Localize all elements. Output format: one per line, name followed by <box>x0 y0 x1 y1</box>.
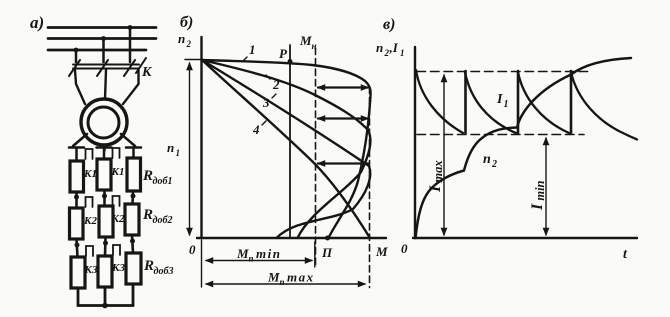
svg-text:К2: К2 <box>111 213 125 225</box>
svg-text:I max: I max <box>427 160 445 193</box>
svg-text:1: 1 <box>400 48 405 58</box>
svg-text:доб1: доб1 <box>153 176 173 187</box>
svg-text:доб2: доб2 <box>153 215 173 226</box>
svg-text:2: 2 <box>491 159 497 170</box>
svg-text:0: 0 <box>189 242 196 257</box>
svg-text:0: 0 <box>401 241 408 256</box>
svg-text:t: t <box>623 247 628 262</box>
svg-text:R: R <box>143 258 154 274</box>
svg-text:К3: К3 <box>84 264 98 276</box>
svg-text:I min: I min <box>529 180 547 211</box>
svg-text:К3: К3 <box>111 262 125 274</box>
svg-text:n: n <box>376 40 383 55</box>
svg-text:max: max <box>287 270 315 285</box>
svg-text:доб3: доб3 <box>154 266 174 277</box>
svg-text:R: R <box>142 168 153 184</box>
svg-text:К: К <box>141 65 153 80</box>
svg-text:,I: ,I <box>389 40 399 55</box>
svg-text:К1: К1 <box>83 168 97 180</box>
svg-text:n: n <box>167 140 174 155</box>
svg-text:М: М <box>375 244 388 259</box>
svg-text:п: п <box>249 254 254 264</box>
svg-text:I: I <box>496 92 503 107</box>
svg-text:1: 1 <box>176 148 181 158</box>
svg-text:1: 1 <box>504 99 509 110</box>
svg-text:н: н <box>312 41 317 51</box>
svg-text:в): в) <box>383 16 395 33</box>
svg-text:2: 2 <box>186 39 192 49</box>
svg-text:n: n <box>483 152 491 167</box>
svg-text:М: М <box>299 33 312 48</box>
svg-text:М: М <box>236 246 249 261</box>
svg-text:п: п <box>280 277 285 287</box>
svg-text:R: R <box>142 207 153 223</box>
svg-text:4: 4 <box>252 122 260 137</box>
svg-text:3: 3 <box>262 95 270 110</box>
svg-text:П: П <box>321 245 333 260</box>
svg-text:n: n <box>178 31 185 46</box>
svg-text:К1: К1 <box>111 166 125 178</box>
svg-text:2: 2 <box>272 77 280 92</box>
svg-text:min: min <box>256 246 281 261</box>
svg-text:К2: К2 <box>83 215 97 227</box>
svg-text:б): б) <box>180 14 193 31</box>
svg-text:М: М <box>267 270 280 285</box>
svg-text:1: 1 <box>249 42 256 57</box>
svg-text:P: P <box>279 46 288 61</box>
svg-text:а): а) <box>30 13 44 32</box>
